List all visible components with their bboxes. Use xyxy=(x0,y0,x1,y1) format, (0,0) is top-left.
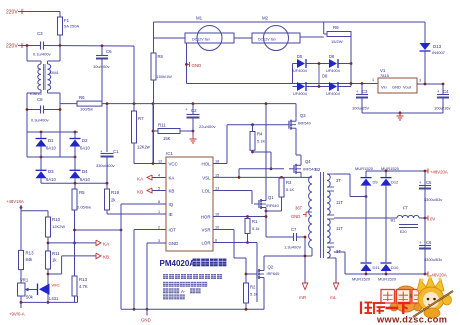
svg-text:M2: M2 xyxy=(262,16,269,21)
svg-text:mR: mR xyxy=(299,295,307,300)
svg-text:7815: 7815 xyxy=(380,73,390,78)
svg-text:LOL: LOL xyxy=(202,188,211,193)
svg-text:C3: C3 xyxy=(362,89,368,94)
svg-text:36T: 36T xyxy=(295,206,303,211)
svg-text:5A 250A: 5A 250A xyxy=(64,24,79,29)
svg-text:D12: D12 xyxy=(391,180,399,185)
svg-text:15: 15 xyxy=(215,173,219,177)
svg-text:13: 13 xyxy=(215,186,219,190)
svg-text:100/5w: 100/5w xyxy=(80,107,93,112)
svg-text:100u/16v: 100u/16v xyxy=(434,106,450,111)
svg-text:LOR: LOR xyxy=(201,240,210,245)
svg-text:R1: R1 xyxy=(252,219,258,224)
svg-text:www.dzsc.com: www.dzsc.com xyxy=(376,315,447,325)
svg-text:12K2W: 12K2W xyxy=(52,224,65,229)
svg-text:+: + xyxy=(185,107,188,112)
svg-text:R11: R11 xyxy=(52,251,60,256)
svg-text:0V: 0V xyxy=(430,217,435,222)
svg-text:UF4004: UF4004 xyxy=(326,91,341,96)
svg-text:Q1: Q1 xyxy=(268,195,274,200)
svg-text:150k/1W: 150k/1W xyxy=(157,74,173,79)
svg-text:D10: D10 xyxy=(391,265,399,270)
svg-text:Q4: Q4 xyxy=(305,159,311,164)
svg-text:+: + xyxy=(419,240,422,245)
svg-text:C5: C5 xyxy=(426,180,432,185)
svg-text:100u/25V: 100u/25V xyxy=(352,106,369,111)
svg-text:5.1K: 5.1K xyxy=(257,139,266,144)
svg-text:DC12V fan: DC12V fan xyxy=(258,38,276,42)
svg-text:IQ: IQ xyxy=(169,202,174,207)
svg-text:+9V/0-A: +9V/0-A xyxy=(9,312,25,317)
svg-text:R9: R9 xyxy=(333,25,339,30)
svg-text:R11: R11 xyxy=(158,123,166,128)
svg-text:GND: GND xyxy=(141,318,151,323)
svg-text:D3: D3 xyxy=(48,169,54,174)
svg-text:KB: KB xyxy=(103,254,109,259)
svg-text:PM4020A: PM4020A xyxy=(160,259,196,268)
svg-text:HOL: HOL xyxy=(201,161,211,166)
svg-text:11T: 11T xyxy=(336,226,343,231)
svg-text:3300u/63v: 3300u/63v xyxy=(424,197,442,202)
svg-text:mL: mL xyxy=(330,295,337,300)
svg-text:VCC: VCC xyxy=(169,161,178,166)
svg-text:15K: 15K xyxy=(163,136,171,141)
svg-text:R19: R19 xyxy=(111,190,120,195)
svg-text:Vin: Vin xyxy=(381,85,387,90)
svg-text:MUR1520: MUR1520 xyxy=(381,166,400,171)
svg-text:8: 8 xyxy=(158,200,160,204)
svg-text:C8: C8 xyxy=(37,97,43,102)
svg-text:1: 1 xyxy=(158,210,160,214)
svg-text:D11: D11 xyxy=(373,265,381,270)
svg-text:220V: 220V xyxy=(6,44,18,50)
svg-text:10: 10 xyxy=(215,225,219,229)
svg-text:10u/400v: 10u/400v xyxy=(93,64,109,69)
svg-text:Q2: Q2 xyxy=(268,265,274,270)
svg-text:220V: 220V xyxy=(6,10,18,16)
svg-text:+: + xyxy=(356,89,359,94)
svg-text:11T: 11T xyxy=(336,200,343,205)
svg-text:0.1u/400v: 0.1u/400v xyxy=(33,52,51,57)
svg-text:R7: R7 xyxy=(138,116,144,121)
svg-text:FT: FT xyxy=(403,206,409,211)
svg-text:D4: D4 xyxy=(82,169,88,174)
svg-text:6A10: 6A10 xyxy=(80,146,90,151)
svg-text:+48V18A: +48V18A xyxy=(6,199,24,204)
svg-text:D13: D13 xyxy=(433,44,442,49)
svg-text:R3: R3 xyxy=(286,180,292,185)
svg-text:L431: L431 xyxy=(49,296,59,301)
svg-text:R13: R13 xyxy=(26,251,35,256)
svg-text:16: 16 xyxy=(215,212,219,216)
svg-text:12K2w: 12K2w xyxy=(137,145,151,150)
svg-text:+: + xyxy=(419,180,422,185)
svg-text:VR1: VR1 xyxy=(20,278,29,283)
svg-text:KB: KB xyxy=(169,188,175,193)
svg-text:IRF640: IRF640 xyxy=(267,271,281,276)
svg-text:M1: M1 xyxy=(196,16,203,21)
svg-text:5: 5 xyxy=(158,186,160,190)
svg-text:3: 3 xyxy=(419,79,421,83)
svg-text:C2: C2 xyxy=(191,108,197,113)
svg-text:15/2W: 15/2W xyxy=(331,39,343,44)
svg-text:D6: D6 xyxy=(329,54,335,59)
svg-text:6A10: 6A10 xyxy=(80,177,90,182)
svg-text:MUR1520: MUR1520 xyxy=(378,277,397,282)
svg-text:R5: R5 xyxy=(79,190,85,195)
svg-text:D2: D2 xyxy=(82,138,88,143)
svg-text:IRF540: IRF540 xyxy=(298,121,312,126)
svg-text:IOT: IOT xyxy=(169,227,177,232)
svg-text:B2: B2 xyxy=(315,167,321,172)
svg-text:UF4004: UF4004 xyxy=(293,91,308,96)
svg-text:DC12V fan: DC12V fan xyxy=(192,38,210,42)
svg-text:D5: D5 xyxy=(297,54,303,59)
svg-text:HOR: HOR xyxy=(201,214,211,219)
svg-text:WR1: WR1 xyxy=(52,284,60,288)
svg-text:UF4004: UF4004 xyxy=(293,68,308,73)
svg-text:KB: KB xyxy=(137,189,143,194)
svg-text:1k: 1k xyxy=(52,258,57,263)
svg-text:R10: R10 xyxy=(52,217,61,222)
svg-text:KIM1: KIM1 xyxy=(50,70,60,75)
svg-text:R6: R6 xyxy=(79,95,85,100)
svg-text:C6: C6 xyxy=(426,240,432,245)
svg-text:5.1k: 5.1k xyxy=(250,292,258,297)
svg-text:5.1k: 5.1k xyxy=(252,226,260,231)
svg-text:2k: 2k xyxy=(111,198,116,203)
svg-text:C3: C3 xyxy=(37,31,43,36)
svg-text:GND: GND xyxy=(291,214,300,219)
svg-text:UF4004: UF4004 xyxy=(326,68,341,73)
svg-text:IN4007: IN4007 xyxy=(432,50,446,55)
svg-text:D1: D1 xyxy=(48,138,54,143)
svg-text:12: 12 xyxy=(158,159,162,163)
svg-text:VSL: VSL xyxy=(202,175,211,180)
svg-text:4.7K: 4.7K xyxy=(79,284,88,289)
svg-text:6A10: 6A10 xyxy=(46,146,56,151)
svg-text:IRF640: IRF640 xyxy=(266,203,280,208)
svg-text:C7: C7 xyxy=(291,227,297,232)
svg-text:MUR1520: MUR1520 xyxy=(352,277,371,282)
svg-text:R13: R13 xyxy=(79,277,88,282)
svg-text:2: 2 xyxy=(158,225,160,229)
svg-text:18: 18 xyxy=(215,159,219,163)
svg-text:IC1: IC1 xyxy=(166,151,173,156)
svg-text:1: 1 xyxy=(372,78,374,82)
svg-text:-48V20A: -48V20A xyxy=(430,273,447,278)
svg-text:22u/400v: 22u/400v xyxy=(199,124,215,129)
svg-text:GND: GND xyxy=(392,85,401,90)
svg-text:D9: D9 xyxy=(373,180,379,185)
svg-text:R8: R8 xyxy=(158,54,164,59)
svg-text:A-: A- xyxy=(181,289,186,294)
svg-text:GND: GND xyxy=(192,63,202,68)
svg-text:6A10: 6A10 xyxy=(46,177,56,182)
svg-text:B1: B1 xyxy=(391,218,397,223)
svg-text:R4: R4 xyxy=(257,132,263,137)
svg-text:+: + xyxy=(437,89,440,94)
svg-text:C4: C4 xyxy=(443,89,449,94)
svg-text:84k: 84k xyxy=(26,257,34,262)
svg-text:F1: F1 xyxy=(64,18,70,23)
svg-text:MUR1520: MUR1520 xyxy=(355,166,374,171)
svg-text:R2: R2 xyxy=(250,285,256,290)
svg-text:1.3u400V: 1.3u400V xyxy=(284,245,301,250)
svg-text:6: 6 xyxy=(215,238,217,242)
svg-text:0.3u/400v: 0.3u/400v xyxy=(31,118,49,123)
svg-text:3300u/63v: 3300u/63v xyxy=(424,257,442,262)
svg-text:3: 3 xyxy=(158,239,160,243)
svg-text:D8: D8 xyxy=(322,74,328,79)
svg-text:KA: KA xyxy=(103,241,110,246)
svg-text:C6: C6 xyxy=(106,49,112,54)
svg-text:C1: C1 xyxy=(113,149,119,154)
svg-text:IE: IE xyxy=(169,212,173,217)
svg-text:Q3: Q3 xyxy=(300,113,306,118)
svg-text:5.1K: 5.1K xyxy=(286,187,295,192)
svg-text:+48V20A: +48V20A xyxy=(430,170,448,175)
svg-text:4: 4 xyxy=(158,173,160,177)
svg-text:E20: E20 xyxy=(400,229,408,234)
svg-text:3T: 3T xyxy=(336,178,341,183)
svg-text:GND: GND xyxy=(169,241,179,246)
svg-text:Vout: Vout xyxy=(403,85,412,90)
svg-text:50k: 50k xyxy=(26,295,34,300)
svg-text:0.05/6w: 0.05/6w xyxy=(77,205,91,210)
svg-text:KA: KA xyxy=(137,176,144,181)
svg-text:330u/400v: 330u/400v xyxy=(96,163,115,168)
svg-text:VSR: VSR xyxy=(201,227,210,232)
svg-text:KA: KA xyxy=(169,175,175,180)
